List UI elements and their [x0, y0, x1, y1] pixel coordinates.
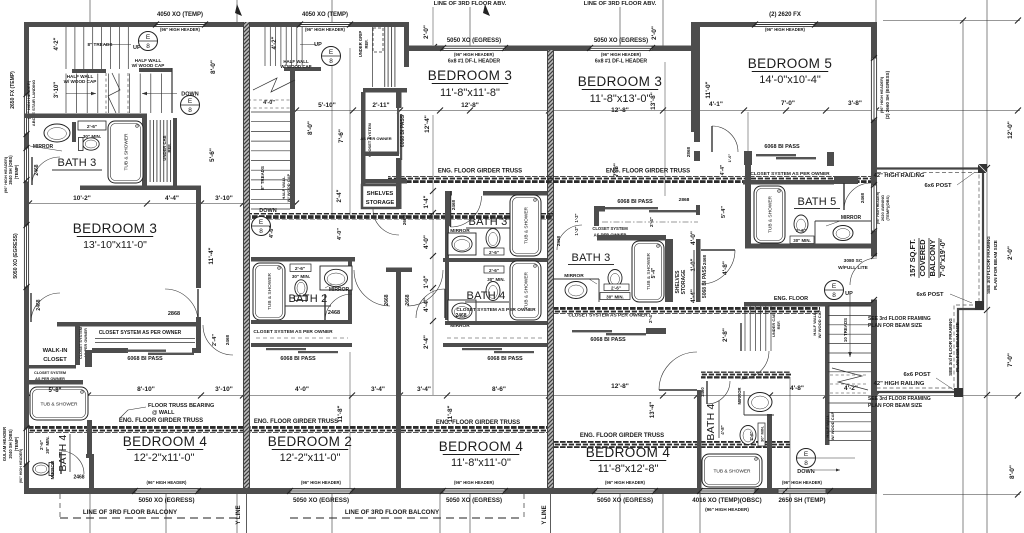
svg-text:MIRROR: MIRROR: [450, 228, 470, 234]
bedroom5 west wall lower and door: [694, 128, 700, 142]
vertical grid line x=987: [986, 0, 988, 533]
extension line x=665: [664, 62, 666, 196]
dimension line D1 y=110.5: [296, 110, 1020, 112]
sink bath3 right: [553, 278, 599, 280]
svg-text:6068 BI PASS: 6068 BI PASS: [400, 114, 406, 147]
svg-text:13'-10"x11'-0": 13'-10"x11'-0": [83, 239, 147, 251]
walk-in shelf wall: [29, 365, 76, 369]
vertical grid line x=790: [789, 377, 791, 533]
svg-text:2468: 2468: [73, 475, 84, 481]
svg-text:1'-0": 1'-0": [424, 275, 430, 288]
bath4 mid south wall: [445, 321, 547, 325]
bedroom2 closet: [251, 320, 352, 324]
svg-text:CLOSET SYSTEM: CLOSET SYSTEM: [592, 226, 628, 231]
svg-text:REF.: REF.: [776, 321, 781, 330]
window 2640 SH (OBS)(TEMP) on left wall: [24, 148, 29, 182]
sink bath4 mid: [448, 300, 476, 322]
svg-text:AS PER OWNER: AS PER OWNER: [360, 136, 391, 141]
door swing: [416, 289, 445, 318]
unit2 shelves storage: [362, 185, 398, 208]
svg-text:4'-8": 4'-8": [720, 425, 725, 434]
svg-text:E: E: [832, 283, 837, 290]
vertical grid line x=620: [619, 7, 621, 47]
svg-text:REF.: REF.: [167, 143, 172, 152]
svg-text:8: 8: [188, 107, 192, 114]
svg-text:(2) 2660 SH (EGRESS): (2) 2660 SH (EGRESS): [885, 70, 890, 119]
svg-text:LINE OF 3RD FLOOR ABV.: LINE OF 3RD FLOOR ABV.: [584, 1, 657, 7]
svg-text:2468: 2468: [860, 192, 865, 203]
unit2 stair lower flight treads: [251, 112, 290, 209]
svg-text:11'-8"x13'-0": 11'-8"x13'-0": [590, 93, 651, 105]
vertical grid line x=90: [89, 0, 91, 22]
svg-text:W/ WOOD CAP: W/ WOOD CAP: [817, 309, 822, 338]
svg-text:2'-0": 2'-0": [423, 25, 430, 39]
svg-text:BEDROOM 3: BEDROOM 3: [578, 74, 663, 89]
door swing: [61, 451, 84, 474]
svg-text:CLOSET SYSTEM AS PER OWNER: CLOSET SYSTEM AS PER OWNER: [568, 313, 648, 319]
svg-text:SEE 3rd FLOOR FRAMING: SEE 3rd FLOOR FRAMING: [986, 236, 991, 294]
window 2650 SH bottom: [778, 489, 826, 494]
svg-text:4'-0": 4'-0": [337, 228, 343, 240]
eng floor girder truss band unit3 lower: [554, 441, 790, 448]
line of 3rd floor balcony left: [60, 517, 237, 519]
vertical grid line x=332: [331, 0, 333, 22]
svg-text:8: 8: [804, 460, 808, 467]
stair west half wall: [825, 303, 830, 445]
svg-text:TUB & SHOWER: TUB & SHOWER: [524, 271, 530, 309]
svg-text:BEDROOM 3: BEDROOM 3: [428, 68, 513, 83]
svg-text:5'-4": 5'-4": [721, 206, 727, 218]
top exterior wall right section: [695, 22, 877, 27]
svg-text:12'-8": 12'-8": [611, 383, 629, 390]
eng floor girder truss band unit2 upper: [250, 213, 553, 220]
window 4050 XO (TEMP) unit1: [156, 22, 205, 27]
vertical grid line x=470: [469, 7, 471, 47]
sink bath4 right: [743, 391, 745, 415]
svg-text:MIRROR: MIRROR: [564, 273, 584, 279]
svg-text:2'-4": 2'-4": [423, 335, 430, 349]
extension line x=748: [747, 112, 749, 152]
window (2) 2660 SH (EGRESS) right wall: [871, 58, 877, 120]
toilet bath3 mid: [486, 229, 500, 248]
svg-text:8: 8: [832, 292, 836, 299]
bedroom5 door swing: [712, 126, 738, 152]
svg-text:ENG. FLOOR GIRDER TRUSS: ENG. FLOOR GIRDER TRUSS: [580, 433, 664, 439]
tub and shower bath3 unit1: [108, 121, 143, 183]
tub and shower bath4 mid: [510, 261, 541, 320]
bath2: [251, 257, 355, 262]
window 5050 XO (EGRESS) bottom: [443, 489, 505, 494]
svg-text:2468: 2468: [36, 299, 42, 310]
svg-text:2'-11": 2'-11": [372, 102, 389, 109]
closet south wall east chunk: [834, 176, 858, 184]
bedroom3 unit1 south doors: [57, 322, 201, 327]
svg-text:(96" HIGH HEADER): (96" HIGH HEADER): [605, 480, 646, 485]
svg-text:5068 BI PASS: 5068 BI PASS: [702, 265, 708, 298]
svg-text:FLOOR TRUSS BEARING: FLOOR TRUSS BEARING: [148, 403, 214, 409]
unit2 closet east wall upper: [396, 92, 402, 108]
toilet: [295, 280, 308, 301]
stair flight north wall: [744, 302, 871, 307]
svg-text:(96" HIGH HEADER): (96" HIGH HEADER): [454, 480, 495, 485]
door swing: [451, 196, 482, 227]
svg-text:1'-4": 1'-4": [424, 195, 430, 208]
svg-text:30" MIN.: 30" MIN.: [760, 426, 765, 442]
bath5 south wall: [745, 244, 877, 249]
svg-text:6068 BI PASS: 6068 BI PASS: [764, 144, 800, 150]
svg-text:BATH 5: BATH 5: [798, 196, 837, 208]
svg-text:SEE 3rd FLOOR FRAMING: SEE 3rd FLOOR FRAMING: [948, 318, 953, 376]
unit2 hall wall: [361, 179, 407, 184]
unit1 stair east edge: [171, 68, 173, 113]
extension line x=350: [349, 352, 351, 488]
svg-text:E: E: [804, 451, 809, 458]
svg-text:Y LINE: Y LINE: [236, 505, 242, 524]
sink bath2: [320, 266, 352, 290]
svg-text:42" HIGH RAILING: 42" HIGH RAILING: [874, 173, 925, 179]
bottom extension line y=494: [883, 494, 1020, 496]
svg-text:4'-2": 4'-2": [844, 385, 858, 392]
svg-text:8: 8: [259, 228, 263, 235]
svg-text:3080 SC: 3080 SC: [844, 258, 863, 264]
svg-text:6x6 POST: 6x6 POST: [924, 183, 952, 189]
svg-text:(96" HIGH HEADER): (96" HIGH HEADER): [705, 507, 749, 512]
svg-text:(96" HIGH HEADER): (96" HIGH HEADER): [160, 27, 201, 32]
door swing: [659, 352, 697, 390]
svg-text:11'-0": 11'-0": [705, 81, 712, 98]
walk-in east wall: [75, 324, 80, 365]
bath5/closet west wall: [745, 151, 751, 248]
svg-text:7'-0": 7'-0": [1007, 353, 1014, 367]
svg-text:2'-4": 2'-4": [212, 334, 218, 346]
svg-text:BEDROOM 2: BEDROOM 2: [268, 434, 353, 449]
svg-text:DOWN: DOWN: [259, 208, 276, 214]
door leaf: [706, 381, 708, 404]
svg-text:MIRROR: MIRROR: [737, 388, 742, 405]
window 5050 XO (EGRESS) mid-right: [590, 46, 652, 51]
unit3 entry door 3080 opening: [871, 256, 877, 300]
bath3/4 mid west wall upper: [445, 191, 450, 226]
svg-text:2468: 2468: [451, 199, 456, 210]
svg-text:30" MIN.: 30" MIN.: [487, 277, 504, 282]
svg-text:5050 XO (EGRESS): 5050 XO (EGRESS): [138, 497, 194, 504]
svg-text:12'-8": 12'-8": [611, 107, 629, 114]
unit1 stair run arrows and breaks: [104, 44, 131, 46]
unit3 north closet (bedroom3 right): [594, 206, 605, 212]
svg-text:2650 FX (TEMP): 2650 FX (TEMP): [10, 71, 16, 109]
toilet bath4 mid: [484, 266, 504, 273]
svg-text:13'-4": 13'-4": [650, 402, 656, 418]
svg-text:3'-4": 3'-4": [371, 386, 385, 393]
bath3 unit1 south wall: [80, 186, 201, 191]
svg-text:12'-2"x11'-0": 12'-2"x11'-0": [280, 452, 341, 464]
svg-text:5'-8": 5'-8": [49, 388, 62, 394]
svg-text:2468: 2468: [455, 313, 466, 319]
svg-text:2'-6": 2'-6": [87, 124, 97, 130]
top leader arrows: [235, 4, 242, 16]
door swing: [701, 250, 735, 284]
sink bath5 counter: [815, 220, 871, 222]
svg-text:30" MIN.: 30" MIN.: [83, 134, 101, 139]
dimension line D3 y=395.5: [29, 395, 1020, 397]
wall step connector at x=404: [404, 22, 409, 67]
svg-text:11'-8"x12'-8": 11'-8"x12'-8": [598, 463, 659, 475]
svg-text:BEDROOM 4: BEDROOM 4: [123, 434, 208, 449]
unit1 stair half wall right: [139, 68, 172, 72]
svg-text:13'-8": 13'-8": [650, 92, 657, 110]
door leaf: [711, 126, 713, 152]
svg-text:E: E: [329, 49, 334, 56]
svg-text:6068 BI PASS: 6068 BI PASS: [617, 199, 653, 205]
level symbol E/8: [797, 449, 816, 468]
svg-text:3'-10": 3'-10": [54, 82, 60, 98]
svg-text:8'-0": 8'-0": [307, 121, 314, 135]
svg-text:3'-4": 3'-4": [417, 386, 431, 393]
svg-text:2'-6": 2'-6": [39, 440, 44, 450]
svg-text:8'-0": 8'-0": [210, 60, 217, 74]
vertical grid line x=663: [662, 0, 664, 47]
svg-text:BATH 2: BATH 2: [289, 293, 328, 305]
svg-text:2468: 2468: [328, 310, 340, 316]
svg-text:(96" HIGH HEADER): (96" HIGH HEADER): [782, 480, 823, 485]
svg-text:W/ WOOD CAP: W/ WOOD CAP: [286, 173, 291, 202]
closet east pillar bed5: [827, 152, 834, 166]
svg-text:BATH 3: BATH 3: [58, 157, 97, 169]
svg-text:BEDROOM 4: BEDROOM 4: [586, 445, 671, 460]
bath3 right door swing: [557, 225, 582, 250]
svg-text:2868: 2868: [686, 146, 691, 157]
svg-text:5050 XO (EGRESS): 5050 XO (EGRESS): [447, 38, 501, 44]
svg-text:ABOVE STAIR LANDING: ABOVE STAIR LANDING: [31, 80, 36, 126]
svg-text:(TEMP)(OBS): (TEMP)(OBS): [885, 195, 890, 221]
svg-text:(96" HIGH HEADER): (96" HIGH HEADER): [4, 156, 8, 193]
top exterior wall middle section: [404, 46, 700, 52]
closet east pillar unit1: [196, 317, 201, 353]
svg-text:2460: 2460: [700, 387, 705, 397]
vertical grid line x=963: [962, 20, 964, 533]
svg-text:LINE OF 3RD FLOOR BALCONY: LINE OF 3RD FLOOR BALCONY: [83, 509, 178, 516]
window 2020 AWNING right wall: [871, 185, 877, 231]
svg-text:LINE OF 3RD FLOOR ABV.: LINE OF 3RD FLOOR ABV.: [434, 1, 507, 7]
svg-text:W/ WOOD CAP: W/ WOOD CAP: [132, 63, 165, 68]
svg-text:2868: 2868: [168, 311, 180, 317]
svg-text:5050 XO (EGRESS): 5050 XO (EGRESS): [13, 233, 19, 279]
svg-text:2'-4": 2'-4": [649, 217, 654, 227]
svg-text:ENG. FLOOR GIRDER TRUSS: ENG. FLOOR GIRDER TRUSS: [254, 419, 338, 425]
vertical grid line x=237: [236, 0, 238, 22]
bath3 unit1 north wall: [24, 114, 147, 119]
svg-text:11'-8"x11'-8": 11'-8"x11'-8": [440, 87, 500, 99]
window 2650 FX (TEMP) on left wall: [24, 94, 29, 134]
svg-text:6068 BI PASS: 6068 BI PASS: [280, 356, 316, 362]
vertical grid line x=166: [165, 494, 167, 533]
window 5050 XO (EGRESS) bottom: [290, 489, 352, 494]
svg-text:157 SQ.FT.: 157 SQ.FT.: [908, 239, 917, 277]
window 5050 XO (EGRESS) mid-left: [443, 46, 505, 51]
bath3 right east wall: [665, 239, 673, 302]
svg-text:2640 SH (OBS): 2640 SH (OBS): [8, 155, 13, 185]
unit2 ref area: [384, 27, 397, 87]
svg-text:PLAN FOR BEAM SIZE: PLAN FOR BEAM SIZE: [868, 323, 923, 329]
unit2 stair upper flight treads: [265, 27, 302, 66]
svg-text:6x6 POST: 6x6 POST: [903, 372, 931, 378]
svg-text:BEDROOM 3: BEDROOM 3: [73, 221, 158, 236]
bedroom 5 west wall upper: [691, 22, 700, 132]
bath3 unit1 wall stub: [72, 122, 76, 142]
bath3 unit1 fixtures: [44, 124, 70, 142]
svg-text:CLOSET SYSTEM AS PER OWNER: CLOSET SYSTEM AS PER OWNER: [99, 330, 182, 336]
unit3 shelves storage: [696, 239, 701, 302]
unit2 ref south wall: [363, 88, 407, 93]
bath divider wall mid: [443, 258, 547, 262]
bath4 right: [697, 390, 702, 488]
svg-text:4'-1": 4'-1": [709, 101, 723, 108]
svg-text:PLAN FOR BEAM SIZE: PLAN FOR BEAM SIZE: [955, 322, 960, 372]
svg-text:2468: 2468: [556, 235, 561, 246]
svg-text:CLOSET SYSTEM: CLOSET SYSTEM: [79, 327, 83, 359]
svg-text:E: E: [259, 219, 264, 226]
svg-text:CLOSET SYSTEM AS PER OWNER: CLOSET SYSTEM AS PER OWNER: [750, 171, 830, 177]
vertical grid line x=700: [699, 494, 701, 533]
eng floor girder truss band unit3 mid: [554, 307, 820, 314]
toilet bath3 right: [608, 270, 622, 287]
svg-text:4'-2": 4'-2": [54, 37, 60, 50]
svg-text:TUB & SHOWER: TUB & SHOWER: [40, 402, 78, 408]
window 4016 XO bottom: [700, 489, 755, 494]
svg-text:W/ WOOD CAP: W/ WOOD CAP: [830, 411, 835, 440]
svg-text:8" TREADS: 8" TREADS: [88, 42, 113, 47]
unit2 stair east wall: [290, 67, 295, 209]
toilet bath4 right: [740, 426, 756, 445]
svg-text:8'-6": 8'-6": [492, 386, 506, 393]
svg-text:2668: 2668: [405, 294, 411, 305]
property line B below: [550, 494, 552, 533]
svg-text:CLOSET: CLOSET: [43, 357, 67, 363]
svg-text:1'-0": 1'-0": [727, 154, 732, 163]
balcony post top: [978, 164, 987, 173]
svg-text:4016 XO (TEMP)(OBSC): 4016 XO (TEMP)(OBSC): [692, 497, 761, 504]
toilet bath5: [794, 215, 808, 233]
svg-text:PLAN FOR BEAM SIZE: PLAN FOR BEAM SIZE: [868, 403, 923, 409]
svg-text:(96" HIGH HEADER): (96" HIGH HEADER): [305, 27, 346, 32]
svg-text:5050 XO (EGRESS): 5050 XO (EGRESS): [594, 38, 648, 44]
tub and shower bath3 mid: [510, 195, 541, 256]
tub and shower bath5: [754, 186, 785, 243]
svg-text:CLOSET SYSTEM: CLOSET SYSTEM: [34, 371, 66, 375]
eng floor girder truss band unit2 lower: [250, 426, 547, 433]
svg-text:2'-6": 2'-6": [489, 250, 499, 255]
balcony post bottom: [954, 388, 963, 397]
svg-text:SHELVES: SHELVES: [367, 191, 394, 197]
svg-text:4'-0": 4'-0": [295, 386, 309, 393]
svg-text:6x8 #1 DF-L HEADER: 6x8 #1 DF-L HEADER: [595, 59, 648, 65]
svg-text:8: 8: [329, 58, 333, 65]
svg-text:30" MIN.: 30" MIN.: [606, 295, 623, 300]
top extension line y=20: [883, 20, 1020, 22]
unit1 ref wall: [173, 118, 177, 190]
balcony post mid: [975, 301, 984, 310]
svg-text:(96" HIGH HEADER): (96" HIGH HEADER): [876, 192, 880, 224]
svg-text:12'-4": 12'-4": [424, 115, 431, 133]
bi-pass closet doors: [462, 348, 502, 350]
closet room door swing: [373, 209, 399, 235]
svg-text:4'-4": 4'-4": [720, 164, 726, 175]
svg-text:BATH 3: BATH 3: [572, 252, 611, 264]
level symbol E/8: [139, 32, 158, 51]
svg-text:2'-0": 2'-0": [651, 26, 658, 40]
svg-text:2668: 2668: [384, 294, 390, 305]
svg-text:7'-6": 7'-6": [338, 129, 345, 143]
unit1 stair lower flight treads: [66, 74, 172, 114]
svg-text:BATH 4: BATH 4: [705, 403, 717, 440]
svg-text:2'-8": 2'-8": [722, 328, 729, 342]
door leaf: [197, 289, 199, 322]
svg-text:TUB & SHOWER: TUB & SHOWER: [524, 206, 530, 244]
svg-text:(96" HIGH HEADER): (96" HIGH HEADER): [765, 27, 806, 32]
svg-text:10 TREADS: 10 TREADS: [843, 318, 848, 342]
svg-text:2'-6": 2'-6": [796, 228, 806, 233]
svg-text:2'-6": 2'-6": [295, 266, 305, 272]
svg-text:5'-6": 5'-6": [209, 148, 216, 162]
door swing: [741, 351, 769, 379]
vertical grid line x=332 mid: [331, 52, 333, 216]
door leaf: [659, 389, 697, 391]
svg-text:MIRROR: MIRROR: [50, 460, 55, 479]
vertical grid line x=876: [875, 0, 877, 22]
svg-text:2'-6": 2'-6": [489, 268, 499, 273]
middle T wall between bedroom2 and bedroom4: [386, 268, 412, 273]
svg-text:ENG. FLOOR GIRDER TRUSS: ENG. FLOOR GIRDER TRUSS: [606, 169, 690, 175]
svg-text:MIRROR: MIRROR: [841, 215, 862, 221]
hall door swing right: [407, 270, 443, 306]
svg-text:REF.: REF.: [364, 39, 369, 48]
svg-text:4'-0": 4'-0": [423, 235, 430, 249]
bi-pass closet doors: [266, 348, 306, 350]
svg-text:8: 8: [146, 43, 150, 50]
bath4 unit1 east wall bottom: [89, 458, 94, 488]
svg-text:2'-6": 2'-6": [749, 431, 754, 440]
svg-text:SEE 3rd FLOOR FRAMING: SEE 3rd FLOOR FRAMING: [868, 396, 931, 402]
svg-text:BEDROOM 5: BEDROOM 5: [748, 56, 833, 71]
svg-text:BATH 3: BATH 3: [469, 216, 508, 228]
door leaf: [60, 452, 62, 474]
svg-text:STORAGE: STORAGE: [366, 200, 395, 206]
sink bath3 mid: [448, 233, 476, 255]
closet south wall right: [597, 235, 666, 241]
svg-text:2668: 2668: [402, 214, 407, 225]
wall piece south of walk-in: [85, 350, 92, 367]
svg-text:7'-0"x19'-0": 7'-0"x19'-0": [940, 239, 947, 277]
unit2 closet bi-pass door on east wall: [397, 108, 399, 154]
svg-text:1'-2": 1'-2": [574, 226, 579, 235]
svg-text:(96" HIGH HEADER): (96" HIGH HEADER): [301, 480, 342, 485]
bedroom4 closet south wall: [92, 348, 128, 353]
svg-text:12'-8": 12'-8": [461, 102, 479, 109]
right exterior wall: [871, 22, 877, 494]
unit2 stair half wall: [284, 67, 321, 71]
svg-text:3'-10": 3'-10": [215, 195, 233, 202]
svg-text:5'-4": 5'-4": [651, 267, 657, 278]
svg-text:(2) 2620 FX: (2) 2620 FX: [769, 12, 801, 18]
tub east wall bath3 unit1: [142, 118, 147, 190]
svg-text:5050 XO (EGRESS): 5050 XO (EGRESS): [293, 497, 349, 504]
svg-text:E: E: [188, 98, 193, 105]
extension line x=350 upper: [349, 48, 351, 216]
unit2 baths middle: [445, 191, 547, 196]
svg-text:BEDROOM 4: BEDROOM 4: [439, 439, 524, 454]
svg-text:WALK-IN: WALK-IN: [43, 348, 68, 354]
svg-text:W/ WOOD CAP: W/ WOOD CAP: [280, 64, 311, 69]
